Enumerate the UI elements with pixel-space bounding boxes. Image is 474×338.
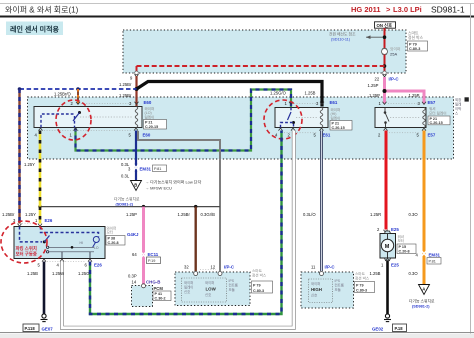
svg-text:와이퍼: 와이퍼 (205, 280, 214, 285)
svg-text:P.81: P.81 (429, 260, 436, 264)
svg-text:P.81: P.81 (154, 167, 161, 171)
wire: red below fuse (384, 55, 386, 73)
svg-text:64: 64 (132, 252, 137, 257)
svg-text:1.25Y: 1.25Y (25, 212, 36, 217)
svg-text:1.25Br: 1.25Br (178, 212, 191, 217)
svg-text:E61: E61 (330, 100, 338, 105)
page frame top line (0, 3, 474, 5)
wire: blue dashed branch to wiper motor pin3 (20, 88, 137, 90)
wire 1.25W white wire (motor pin4 to E61 pin2) (62, 131, 294, 328)
wire 1.25R from E57 pin2 to washer motor (385, 131, 388, 230)
LOW relay IPS box (175, 272, 250, 306)
svg-text:HI: HI (80, 241, 83, 245)
smart junction box region (top dashed cyan box) (123, 30, 406, 73)
svg-text:ON 신호: ON 신호 (377, 22, 393, 29)
svg-text:C.30-2: C.30-2 (155, 297, 166, 301)
svg-text:C.20-15: C.20-15 (332, 126, 345, 130)
svg-text:C.20-15: C.20-15 (430, 121, 443, 125)
marker ellipse on E61 (264, 100, 302, 139)
svg-text:SD981-1: SD981-1 (431, 5, 465, 15)
pin 22 I/P-C connector (383, 71, 387, 75)
svg-text:P 79: P 79 (356, 284, 364, 288)
wire 1.25Br/O to E60 pin2 (76, 87, 80, 91)
svg-text:1.25W: 1.25W (52, 271, 64, 276)
wire 1.25Br vertical (fuse drop to E60 pin3) (135, 76, 137, 107)
svg-text:E25: E25 (391, 263, 399, 268)
wire 1.25Y from E60 pin4 to motor pin1 (39, 131, 42, 224)
node: junction red wire / red dashed (383, 64, 387, 68)
E60 pins bottom (39, 128, 43, 131)
svg-text:1.25G: 1.25G (78, 271, 89, 276)
wire 1.25G green wire (motor pin6 to E61 pin4) (90, 131, 282, 315)
svg-text:GE02: GE02 (372, 327, 384, 332)
svg-text:0.3O: 0.3O (409, 212, 419, 217)
title separator line (0, 16, 474, 18)
svg-text:모듈: 모듈 (229, 287, 235, 292)
svg-text:(SD981-2): (SD981-2) (412, 305, 430, 309)
washer relay E57 pins top / pink feed (383, 77, 386, 104)
svg-text:신호: 신호 (311, 293, 317, 298)
svg-text:1.25Br/O: 1.25Br/O (54, 92, 72, 97)
svg-text:B: B (134, 183, 137, 188)
relay E61 (wiper HI relay) (275, 108, 328, 128)
svg-text:P.18: P.18 (395, 326, 404, 331)
svg-text:이박: 이박 (455, 106, 461, 111)
svg-text:EM31: EM31 (140, 167, 152, 172)
svg-text:(SD981-2): (SD981-2) (116, 203, 134, 207)
svg-text:E26: E26 (45, 218, 53, 223)
svg-text:GE07: GE07 (42, 327, 54, 332)
motor pins bottom (42, 259, 46, 262)
svg-text:다기능 스위치로: 다기능 스위치로 (114, 197, 140, 202)
svg-text:G4KJ: G4KJ (127, 232, 139, 237)
svg-text:E60: E60 (144, 100, 152, 105)
svg-text:모터: 모터 (107, 230, 114, 235)
svg-text:EM31: EM31 (429, 253, 441, 258)
svg-text:와이퍼 & 와셔 회로(1): 와이퍼 & 와셔 회로(1) (5, 5, 79, 15)
svg-text:M: M (385, 244, 390, 250)
svg-text:IPS: IPS (229, 279, 235, 283)
svg-text:1.25B: 1.25B (305, 91, 316, 96)
svg-text:1.25Br: 1.25Br (2, 212, 15, 217)
svg-text:14: 14 (132, 280, 137, 285)
svg-text:다기능 스위치로: 다기능 스위치로 (409, 299, 435, 304)
svg-text:워셔: 워셔 (429, 106, 436, 111)
svg-text:0.3P: 0.3P (128, 274, 137, 279)
svg-text:1.25R: 1.25R (370, 212, 381, 217)
svg-text:P.118: P.118 (25, 326, 36, 331)
svg-text:와이퍼: 와이퍼 (184, 280, 193, 285)
svg-text:32: 32 (184, 265, 189, 270)
E57 coil (423, 108, 426, 128)
svg-text:전원 배선도 참조: 전원 배선도 참조 (329, 32, 356, 37)
svg-text:1.25Br: 1.25Br (119, 82, 132, 87)
wire 1.25Br left vertical (to motor pin 3) (18, 89, 20, 224)
E57 internal switch (384, 108, 386, 113)
svg-text:0.3O: 0.3O (409, 271, 419, 276)
svg-text:P.19: P.19 (148, 259, 155, 263)
svg-text:와이퍼: 와이퍼 (311, 281, 320, 286)
svg-text:I/P-C: I/P-C (224, 265, 235, 270)
svg-text:(SD110-11): (SD110-11) (331, 38, 351, 42)
svg-text:컨트롤: 컨트롤 (335, 283, 344, 288)
node: junction on red feed (383, 35, 387, 39)
reference arrow to SD110-11 (366, 36, 383, 38)
svg-text:E57: E57 (428, 133, 436, 138)
svg-text:P 15: P 15 (399, 245, 407, 249)
svg-text:E26: E26 (94, 263, 102, 268)
wire 0.3L/O from E61 pin5 to HIGH relay (320, 131, 323, 272)
svg-text:→ MFSW ECU: → MFSW ECU (145, 186, 172, 191)
svg-text:1.25P: 1.25P (368, 83, 379, 88)
svg-text:외장: 외장 (455, 97, 461, 102)
svg-text:스마트: 스마트 (355, 271, 366, 276)
svg-text:CHG-B: CHG-B (146, 280, 160, 285)
E60 coil (135, 107, 138, 128)
wire 1.25B washer motor ground (386, 261, 389, 314)
svg-text:HIGH: HIGH (311, 287, 322, 292)
page bottom lines (0, 332, 474, 334)
relay E60 (wiper LO relay) (34, 107, 142, 128)
E57 pins bottom (384, 128, 388, 131)
wire 1.25B thick black to E61 pin3 (137, 82, 323, 107)
svg-text:릴레이: 릴레이 (184, 285, 193, 290)
motor armature symbol (46, 246, 48, 248)
svg-text:1.25P: 1.25P (409, 93, 420, 98)
svg-text:P 21: P 21 (332, 122, 340, 126)
wire 1.25G/O from E60 pin1 to E61 pin1 (76, 90, 292, 151)
svg-text:C.80-3: C.80-3 (253, 289, 264, 293)
svg-text:신호: 신호 (184, 289, 190, 294)
svg-text:컨트롤: 컨트롤 (229, 283, 238, 288)
svg-text:E60: E60 (143, 133, 151, 138)
svg-text:A: A (422, 287, 425, 292)
wiper motor box (14, 227, 105, 259)
svg-text:IPS: IPS (335, 279, 341, 283)
wire: ignition red feed from ON box (384, 28, 386, 48)
PCM box (132, 286, 153, 307)
svg-text:HG 2011: HG 2011 (351, 5, 381, 14)
svg-text:E25: E25 (391, 227, 399, 232)
svg-text:P 41: P 41 (155, 292, 163, 296)
svg-text:0.3L/O: 0.3L/O (303, 212, 316, 217)
svg-text:LOW: LOW (206, 287, 217, 292)
svg-text:I/P-C: I/P-C (325, 265, 336, 270)
svg-text:1.25P: 1.25P (369, 93, 380, 98)
node: main junction (135, 87, 139, 91)
svg-text:EC11: EC11 (148, 252, 159, 257)
svg-text:1.25P: 1.25P (126, 212, 137, 217)
svg-text:E57: E57 (428, 100, 436, 105)
wire 1.25Br to LOW relay box (194, 207, 196, 271)
marker ellipse on E60 (56, 100, 91, 140)
svg-text:25A: 25A (390, 52, 397, 57)
svg-text:스: 스 (455, 112, 458, 116)
svg-text:모듈: 모듈 (335, 287, 341, 292)
svg-text:LO: LO (94, 246, 99, 250)
svg-text:신호: 신호 (205, 292, 211, 297)
svg-text:1.25Y: 1.25Y (24, 162, 35, 167)
ground GE07 (42, 314, 46, 318)
right margin vertical label (465, 97, 469, 101)
svg-text:릴레: 릴레 (455, 102, 461, 107)
svg-text:I/P-C: I/P-C (389, 77, 400, 82)
fuse 와이퍼 25A (382, 49, 388, 55)
washer relay E57 (375, 108, 426, 128)
wire 0.3O from E57 pin5 to triangle A (423, 131, 426, 251)
svg-text:정션 박스: 정션 박스 (408, 35, 424, 40)
bus wire along y=206.5 (40, 206, 220, 208)
E61 coil (320, 108, 323, 128)
heading highlight: 레인 센서 미적용 (6, 22, 63, 36)
svg-text:정션 박스: 정션 박스 (252, 272, 267, 277)
pin 9 connector at SJB edge (135, 71, 139, 75)
svg-text:11: 11 (311, 265, 316, 270)
svg-text:L3.0 LPi: L3.0 LPi (393, 5, 422, 14)
svg-text:12: 12 (211, 265, 216, 270)
svg-text:레인 센서 미적용: 레인 센서 미적용 (10, 25, 60, 34)
svg-text:C.80-3: C.80-3 (356, 289, 367, 293)
wire: red dashed feed across SJB (137, 65, 385, 67)
relay row region (middle dashed cyan band) (28, 97, 454, 159)
svg-text:스마트: 스마트 (408, 31, 419, 36)
svg-text:22: 22 (375, 77, 380, 82)
connector triangle A (419, 285, 430, 295)
svg-text:스마트: 스마트 (252, 268, 263, 273)
svg-text:C.20-8: C.20-8 (108, 241, 119, 245)
marker ellipse on motor (1, 221, 47, 263)
page right edge line (470, 4, 472, 335)
svg-text:1.25Br: 1.25Br (119, 93, 132, 98)
svg-text:모터: 모터 (398, 238, 405, 243)
svg-text:릴레이: 릴레이 (145, 114, 155, 119)
svg-text:0.3L: 0.3L (121, 174, 130, 179)
ground GE02 (385, 314, 389, 318)
connector triangle B (131, 181, 142, 191)
wire 0.3L from E60 pin5 to triangle B (135, 131, 137, 165)
svg-text:1.25G/O: 1.25G/O (270, 91, 287, 96)
E61 pins bottom (279, 128, 283, 131)
svg-text:C.20-8: C.20-8 (399, 250, 410, 254)
svg-text:1.25B: 1.25B (27, 271, 38, 276)
svg-text:릴레이: 릴레이 (331, 115, 341, 120)
wire 1.25P to PCM (142, 207, 145, 285)
svg-text:P 38: P 38 (108, 237, 116, 241)
wire 1.25B to ground GE07 (43, 262, 46, 315)
svg-text:C.80-3: C.80-3 (409, 47, 420, 51)
washer motor box (380, 234, 396, 259)
svg-text:0.3Gr/B: 0.3Gr/B (201, 212, 216, 217)
washer motor pin bottom (386, 258, 390, 261)
svg-text:E61: E61 (323, 133, 331, 138)
motor internal dashed wiring (20, 227, 43, 242)
svg-text:P 21: P 21 (145, 121, 153, 125)
svg-text:P 79: P 79 (253, 284, 261, 288)
svg-text:>: > (386, 5, 391, 14)
svg-text:1.25B: 1.25B (370, 271, 381, 276)
svg-text:PCM: PCM (154, 286, 164, 291)
svg-text:정션 박스: 정션 박스 (355, 275, 370, 280)
E60 internal switch (78, 111, 81, 114)
HIGH relay IPS box (301, 272, 354, 308)
svg-text:P 79: P 79 (409, 43, 417, 47)
svg-text:C.20-15: C.20-15 (145, 125, 158, 129)
E61 internal switch (290, 108, 292, 113)
svg-text:모터 구동중: 모터 구동중 (16, 251, 37, 258)
wire 0.3Gr/B jog from E60 pin5 (138, 131, 220, 271)
svg-text:→ 다기능스위치 와이퍼 Low 단자: → 다기능스위치 와이퍼 Low 단자 (145, 179, 202, 185)
ON 신호 box (375, 22, 396, 28)
svg-text:모터 릴레이: 모터 릴레이 (429, 111, 447, 116)
connector box P79 C.80-3 (top right) (408, 41, 428, 51)
